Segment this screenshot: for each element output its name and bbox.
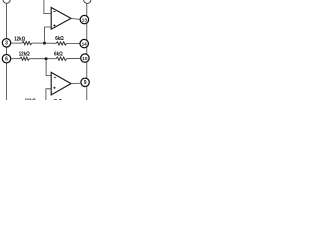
wire R4 to node 10 [67, 57, 81, 59]
node 6 [2, 55, 10, 63]
svg-text:12kΩ: 12kΩ [19, 51, 30, 58]
node 10 [81, 54, 89, 62]
svg-text:6kΩ: 6kΩ [54, 51, 63, 58]
node 3 [2, 39, 10, 47]
wire below node 9 to bottom edge [86, 86, 88, 100]
wire U2 non-inverting input from bottom edge [46, 89, 51, 100]
junction J2 [45, 57, 48, 60]
op-amp U2 plus sign [53, 87, 55, 89]
wire node3 to R1 [11, 42, 22, 44]
junction J1 [43, 42, 46, 45]
wire R1 to junction J1 [32, 42, 45, 44]
resistor R3 12kΩ zigzag [20, 57, 30, 60]
svg-text:10: 10 [82, 56, 88, 61]
svg-text:12kΩ: 12kΩ [25, 98, 36, 100]
wire U1 inverting input from top edge [44, 0, 51, 14]
wire left rail lower [6, 63, 8, 100]
wire node 10 to node 9 [86, 62, 88, 78]
resistor R2 6kΩ zigzag [56, 42, 67, 45]
wire J2 to R4 [46, 58, 56, 60]
svg-text:12kΩ: 12kΩ [14, 36, 25, 43]
node 14 [80, 39, 88, 47]
wire U2 output to node 9 [71, 82, 81, 85]
op-amp U2 [51, 72, 71, 95]
svg-text:13: 13 [82, 17, 88, 22]
svg-text:6kΩ: 6kΩ [55, 36, 64, 43]
wire node 14 to node 10 [86, 47, 88, 54]
wire R2 to node 14 [67, 42, 80, 44]
resistor R4 6kΩ zigzag [56, 57, 67, 60]
wire node6 to R3 [11, 58, 20, 60]
wire J1 to R2 [45, 42, 56, 44]
svg-text:6kΩ: 6kΩ [54, 98, 63, 100]
terminal node top-right (clipped circle) [84, 0, 91, 3]
op-amp U1 [51, 8, 71, 30]
wire node 13 to node 14 [86, 23, 88, 40]
wire U1 output to node 13 [71, 18, 80, 21]
op-amp U1 plus sign [53, 24, 55, 26]
terminal node top-left (clipped circle) [3, 0, 10, 3]
wire left rail upper [6, 3, 8, 38]
op-amp U1 minus sign [53, 11, 55, 13]
wire R3 to junction J2 [30, 58, 46, 60]
svg-text:6: 6 [5, 57, 8, 63]
resistor R1 12kΩ zigzag [22, 42, 32, 45]
svg-text:9: 9 [84, 80, 87, 86]
wire node3 to node6 [6, 47, 8, 55]
node 13 [80, 15, 88, 23]
svg-text:3: 3 [5, 41, 8, 47]
node 9 [81, 78, 89, 86]
wire top-right rail to node 13 [86, 3, 88, 16]
op-amp U2 minus sign [54, 76, 56, 78]
wire U1 non-inverting input from J1 [45, 27, 52, 43]
svg-text:14: 14 [82, 41, 88, 46]
wire U2 inverting input from J2 [46, 59, 51, 76]
